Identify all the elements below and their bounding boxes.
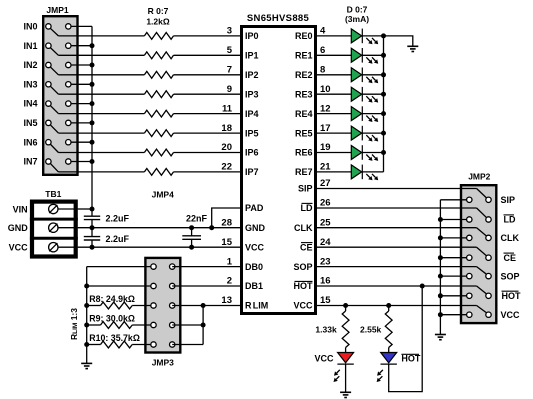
svg-text:2.2uF: 2.2uF [106, 213, 130, 223]
label IN7 [23, 157, 37, 167]
connector JMP2 left pins [467, 197, 472, 317]
svg-text:1.33k: 1.33k [315, 325, 337, 335]
pin number 22 [221, 162, 232, 173]
jumper diagonal CE [477, 247, 487, 256]
svg-text:23: 23 [320, 256, 331, 267]
LED D4 [351, 106, 378, 122]
svg-text:RE1: RE1 [295, 51, 313, 61]
terminal block TB1 body [30, 202, 78, 257]
pin number 7 [227, 65, 232, 76]
wire R9 to JMP3 [132, 324, 153, 326]
terminal TB1 GND screw [49, 223, 78, 232]
svg-text:TB1: TB1 [45, 189, 61, 199]
svg-text:22: 22 [221, 162, 232, 173]
LED VCC indicator (red) [334, 353, 354, 383]
wire red LED to ground [345, 364, 347, 392]
wire IN2 to resistor [58, 74, 144, 76]
connector JMP1 row 4 right pin and wire to bus [66, 101, 92, 106]
wire LED D6 cathode to bus [362, 152, 383, 154]
label JMP2 VCC [501, 310, 521, 320]
svg-text:R9: 30.0kΩ: R9: 30.0kΩ [89, 314, 135, 324]
wire RE3 to LED D3 [316, 93, 351, 95]
resistor R 0:7 element 7 [144, 169, 173, 176]
pin number 24 [320, 237, 331, 248]
wire JMP3 ground bus [86, 267, 88, 364]
resistor R 0:7 element 1 [144, 52, 173, 59]
label JMP2 CE [504, 253, 517, 263]
svg-text:DB1: DB1 [245, 281, 263, 291]
junction dots GND rail [90, 225, 215, 230]
svg-text:IP4: IP4 [245, 109, 259, 119]
resistor R 0:7 element 2 [144, 71, 173, 78]
pin number 3 [227, 26, 232, 37]
pin number 10 [320, 84, 331, 95]
svg-text:25: 25 [320, 217, 331, 228]
label RLIM 1:3 [69, 308, 79, 340]
svg-text:IP7: IP7 [245, 167, 259, 177]
op-amp U1 SN65HVS885 title [247, 13, 310, 24]
resistor R8 [101, 302, 133, 309]
svg-text:1: 1 [227, 256, 233, 267]
svg-text:IN3: IN3 [23, 79, 37, 89]
resistor R 0:7 element 0 [144, 33, 173, 40]
wire LED D0 cathode to bus [362, 35, 383, 37]
label VIN [13, 204, 28, 214]
label HOT indicator [401, 353, 421, 363]
pin number 11 [222, 103, 233, 114]
wire PAD to GND [212, 208, 241, 228]
jumper diagonal SIP [477, 189, 487, 199]
svg-text:RE2: RE2 [295, 70, 313, 80]
svg-text:PAD: PAD [245, 203, 264, 213]
svg-text:24: 24 [320, 237, 331, 248]
label C1 2.2uF [106, 213, 130, 223]
svg-text:SIP: SIP [501, 195, 516, 205]
connector JMP1 row 6 right pin and wire to bus [66, 140, 92, 145]
svg-text:SN65HVS885: SN65HVS885 [247, 13, 310, 24]
pin number 2 [227, 276, 232, 287]
wire IN1 to resistor [58, 54, 144, 56]
pin number 23 [320, 256, 331, 267]
svg-text:GND: GND [8, 223, 29, 233]
wire RE4 to LED D4 [316, 113, 351, 115]
pin number 20 [221, 142, 232, 153]
junction dots JMP1 bus [90, 43, 95, 164]
svg-text:IN1: IN1 [23, 41, 37, 51]
svg-text:IN0: IN0 [23, 22, 37, 32]
pin number 8 [320, 65, 325, 76]
capacitor C3 22nF [182, 228, 201, 248]
wire RE1 to LED D1 [316, 54, 351, 56]
wire RE5 to LED D5 [316, 132, 351, 134]
svg-text:RE3: RE3 [295, 89, 313, 99]
resistor R9 [101, 322, 133, 329]
svg-text:RE6: RE6 [295, 148, 313, 158]
svg-text:10: 10 [320, 84, 331, 95]
label C2 2.2uF [106, 234, 130, 244]
label R9 [89, 314, 135, 324]
svg-text:IN6: IN6 [23, 137, 37, 147]
connector JMP1 row 3 left pin [46, 82, 59, 95]
wire R11 to LED [345, 348, 347, 353]
connector JMP1 row 5 right pin and wire to bus [66, 120, 92, 125]
capacitor C1 2.2uF [84, 209, 100, 228]
junction dots RLIM net [201, 303, 206, 328]
label JMP2 HOT [502, 291, 522, 301]
svg-text:1.2kΩ: 1.2kΩ [146, 16, 170, 26]
connector JMP1 row 7 left pin [46, 159, 59, 172]
connector JMP2 body [461, 185, 496, 323]
wire resistor 2 to IP2 [174, 74, 242, 76]
wire LED bus to ground [384, 36, 413, 46]
pin number 13 [221, 295, 232, 306]
svg-text:28: 28 [221, 217, 232, 228]
resistor R10 [101, 341, 133, 348]
ground (red LED) [340, 392, 351, 397]
label VCC indicator [314, 353, 334, 363]
resistor R 0:7 element 4 [144, 110, 173, 117]
svg-text:(3mA): (3mA) [345, 14, 369, 24]
pin number 5 [227, 45, 233, 56]
wire IN7 to resistor [58, 171, 144, 173]
pin number 27 [320, 178, 331, 189]
resistor R 0:7 element 6 [144, 149, 173, 156]
connector JMP1 row 1 left pin [46, 43, 59, 55]
terminal TB1 VIN screw [49, 204, 78, 213]
ground (JMP2 bus) [435, 335, 446, 340]
pin number 16 [320, 276, 331, 287]
wire GND rail [78, 227, 241, 229]
svg-text:SOP: SOP [501, 271, 520, 281]
capacitor C2 2.2uF [84, 228, 100, 248]
connector JMP1 body [43, 16, 77, 175]
svg-text:D 0:7: D 0:7 [347, 5, 368, 15]
connector JMP2 right pins [486, 197, 491, 317]
wire JMP1 common bus to VIN [91, 26, 93, 209]
connector JMP1 row 3 right pin and wire to bus [66, 82, 92, 87]
connector JMP1 row 4 left pin [46, 101, 59, 114]
svg-text:LD: LD [504, 215, 516, 225]
wire resistor 4 to IP4 [174, 113, 242, 115]
svg-text:2: 2 [227, 276, 232, 287]
svg-text:CLK: CLK [501, 233, 520, 243]
pin number 17 [320, 123, 331, 134]
label VCC [9, 243, 29, 253]
jumper diagonal SOP [477, 267, 487, 275]
label GND [8, 223, 29, 233]
ground (LED bus) [407, 46, 418, 51]
wire resistor 1 to IP1 [174, 54, 242, 56]
svg-text:8: 8 [320, 65, 325, 76]
terminal block TB1 label [45, 189, 61, 199]
svg-text:SIP: SIP [298, 184, 313, 194]
svg-text:GND: GND [245, 223, 266, 233]
svg-text:11: 11 [222, 103, 233, 114]
label R8 [89, 294, 135, 304]
wire LED D3 cathode to bus [362, 93, 383, 95]
svg-text:IN5: IN5 [23, 118, 37, 128]
wires JMP2 left pins to ground bus [440, 200, 469, 315]
wire R8 to JMP3 [132, 305, 153, 307]
LED D3 [351, 87, 378, 103]
wire resistor 7 to IP7 [174, 171, 242, 173]
jumper diagonal LD [477, 208, 487, 218]
svg-text:IP0: IP0 [245, 31, 259, 41]
svg-text:CE: CE [504, 253, 517, 263]
junction HOT net [420, 284, 425, 289]
svg-text:RE0: RE0 [295, 31, 313, 41]
svg-text:VCC: VCC [293, 301, 313, 311]
svg-text:13: 13 [221, 295, 232, 306]
wire bus to R9 [87, 324, 101, 326]
connector JMP1 row 2 left pin [46, 62, 59, 75]
svg-text:IP2: IP2 [245, 70, 259, 80]
wire VCC to R11 [345, 306, 347, 312]
label IN1 [23, 41, 37, 51]
svg-text:IN4: IN4 [23, 99, 37, 109]
wire resistor 3 to IP3 [174, 93, 242, 95]
connector JMP1 row 6 left pin [46, 140, 59, 153]
connector JMP1 label [46, 5, 68, 15]
svg-text:CLK: CLK [294, 223, 313, 233]
label IN3 [23, 79, 37, 89]
pin number 9 [227, 84, 232, 95]
junction dots JMP3 ground bus [84, 284, 89, 348]
wire IN0 to resistor [58, 35, 144, 37]
svg-text:IN2: IN2 [23, 60, 37, 70]
wire resistor 6 to IP6 [174, 152, 242, 154]
svg-text:2.2uF: 2.2uF [106, 234, 130, 244]
IC right pin names RE0-RE7 [295, 31, 313, 177]
wire SOP to JMP2 [316, 266, 477, 268]
wire DB0 to JMP3 [87, 266, 154, 268]
svg-text:RE4: RE4 [295, 109, 313, 119]
svg-text:RLIM 1:3: RLIM 1:3 [69, 308, 79, 340]
pin number 12 [320, 103, 331, 114]
label JMP2 LD [504, 215, 516, 225]
IC left pin names IP0-IP7 [245, 31, 259, 177]
connector JMP1 row 5 left pin [46, 120, 59, 133]
wire IN6 to resistor [58, 152, 144, 154]
label 1.33k [315, 325, 337, 335]
svg-text:JMP2: JMP2 [468, 171, 490, 181]
label JMP2 SIP [501, 195, 516, 205]
svg-text:IP1: IP1 [245, 51, 259, 61]
wire bus to R10 [87, 344, 101, 346]
wire RE7 to LED D7 [316, 171, 351, 173]
LED D7 [351, 165, 378, 181]
connector JMP1 row 0 right pin and wire to bus [66, 24, 92, 29]
connector JMP3 label [152, 358, 174, 368]
svg-text:5: 5 [227, 45, 233, 56]
junction dots JMP2 bus [438, 217, 443, 317]
wire resistor 5 to IP5 [174, 132, 242, 134]
label D 0:7 [347, 5, 368, 15]
svg-text:LD: LD [301, 203, 313, 213]
svg-text:SOP: SOP [293, 262, 312, 272]
pin number 19 [320, 142, 331, 153]
resistor R 0:7 element 5 [144, 130, 173, 137]
svg-text:21: 21 [320, 162, 331, 173]
LED D6 [351, 145, 378, 161]
wire IN4 to resistor [58, 113, 144, 115]
svg-text:22nF: 22nF [186, 213, 208, 223]
wire VCC to JMP2 [316, 305, 477, 307]
pin number 15 (left) [221, 237, 232, 248]
junction dots VCC indicator [343, 303, 391, 308]
label JMP2 SOP [501, 271, 520, 281]
wire LED D7 cathode to bus [362, 171, 383, 173]
svg-text:27: 27 [320, 178, 331, 189]
svg-text:15: 15 [221, 237, 232, 248]
jumper diagonal HOT [477, 286, 487, 294]
svg-text:19: 19 [320, 142, 331, 153]
resistor R12 2.55k [385, 311, 392, 348]
wire resistor 0 to IP0 [174, 35, 242, 37]
pin number 28 [221, 217, 232, 228]
LED D1 [351, 48, 378, 64]
junction dots LED bus [381, 33, 386, 155]
svg-text:JMP4: JMP4 [152, 190, 174, 200]
LED D2 [351, 68, 378, 84]
svg-text:18: 18 [221, 123, 232, 134]
connector JMP3 left pins [151, 264, 156, 347]
wire RLIM net [172, 306, 241, 345]
label R10 [89, 333, 140, 343]
wire SIP to JMP2 [316, 188, 477, 190]
wire blue LED to HOT [389, 286, 423, 392]
wire LED D5 cathode to bus [362, 132, 383, 134]
label IN6 [23, 137, 37, 147]
svg-text:R 0:7: R 0:7 [148, 6, 169, 16]
label R 0:7 [148, 6, 169, 16]
LED D0 [351, 29, 378, 45]
svg-text:RE5: RE5 [295, 128, 313, 138]
svg-text:VCC: VCC [245, 242, 265, 252]
connector JMP3 right pins [170, 264, 175, 347]
pin number 1 [227, 256, 233, 267]
svg-text:RE7: RE7 [295, 167, 313, 177]
svg-text:12: 12 [320, 103, 331, 114]
pin number 21 [320, 162, 331, 173]
svg-text:JMP1: JMP1 [46, 5, 68, 15]
svg-text:26: 26 [320, 198, 331, 209]
label IN0 [23, 22, 37, 32]
label JMP4 [152, 190, 174, 200]
svg-text:DB0: DB0 [245, 262, 263, 272]
wire LED cathode bus [383, 36, 385, 172]
pin number 26 [320, 198, 331, 209]
svg-text:20: 20 [221, 142, 232, 153]
wire JMP3 to DB1 pin 2 [172, 285, 241, 287]
pin number 15 [320, 295, 331, 306]
wire JMP2 ground bus [439, 200, 441, 335]
wire LED D4 cathode to bus [362, 113, 383, 115]
label (3mA) [345, 14, 369, 24]
svg-text:15: 15 [320, 295, 331, 306]
op-amp U1 SN65HVS885 body [242, 27, 316, 314]
svg-text:R8: 24.9kΩ: R8: 24.9kΩ [89, 294, 135, 304]
connector JMP1 row 2 right pin and wire to bus [66, 62, 92, 67]
label 2.55k [360, 325, 382, 335]
connector JMP3 body [145, 258, 180, 353]
IC lower right pin names [293, 184, 313, 311]
wire VIN [78, 208, 92, 210]
label 1.2kOhm [146, 16, 170, 26]
wire DB1 to JMP3 [87, 285, 154, 287]
wire IN5 to resistor [58, 132, 144, 134]
svg-text:VIN: VIN [13, 204, 28, 214]
wire LED D1 cathode to bus [362, 54, 383, 56]
connector JMP1 row 1 right pin and wire to bus [66, 43, 92, 48]
svg-text:RLIM: RLIM [245, 301, 268, 311]
wire RE6 to LED D6 [316, 152, 351, 154]
pin number 6 [320, 45, 325, 56]
svg-text:VCC: VCC [9, 243, 29, 253]
svg-text:CE: CE [300, 242, 313, 252]
svg-text:4: 4 [320, 26, 326, 37]
svg-text:3: 3 [227, 26, 232, 37]
wire VCC to R12 [388, 306, 390, 312]
wire LD to JMP2 [316, 207, 477, 209]
wire HOT to JMP2 [316, 285, 477, 287]
svg-text:2.55k: 2.55k [360, 325, 382, 335]
svg-text:HOT: HOT [502, 291, 522, 301]
IC lower left pin names [245, 203, 268, 311]
wire bus to R8 [87, 305, 101, 307]
wire JMP3 to DB0 pin 1 [172, 266, 241, 268]
connector JMP1 row 0 left pin [46, 24, 59, 36]
svg-text:16: 16 [320, 276, 331, 287]
LED HOT indicator (blue) [377, 353, 397, 383]
svg-text:17: 17 [320, 123, 331, 134]
wire R10 to JMP3 [132, 344, 153, 346]
jumper diagonal VCC [477, 306, 487, 313]
label JMP2 CLK [501, 233, 520, 243]
label IN5 [23, 118, 37, 128]
label IN2 [23, 60, 37, 70]
svg-text:VCC: VCC [501, 310, 521, 320]
svg-text:VCC: VCC [314, 353, 334, 363]
wire CE to JMP2 [316, 246, 477, 248]
wire R12 to LED [388, 348, 390, 353]
wire RE2 to LED D2 [316, 74, 351, 76]
wire VCC rail [78, 246, 241, 248]
pin number 18 [221, 123, 232, 134]
wire IN3 to resistor [58, 93, 144, 95]
junction dots VCC rail [90, 245, 195, 250]
resistor R 0:7 element 3 [144, 91, 173, 98]
svg-text:JMP3: JMP3 [152, 358, 174, 368]
resistor R11 1.33k [342, 311, 349, 348]
pin number 4 [320, 26, 326, 37]
connector JMP2 label [468, 171, 490, 181]
svg-text:6: 6 [320, 45, 325, 56]
svg-text:9: 9 [227, 84, 232, 95]
LED D5 [351, 126, 378, 142]
svg-text:HOT: HOT [294, 281, 314, 291]
wire CLK to JMP2 [316, 227, 477, 229]
wire RE0 to LED D0 [316, 35, 351, 37]
svg-text:7: 7 [227, 65, 232, 76]
junction VIN bus [90, 207, 95, 212]
svg-text:IP5: IP5 [245, 128, 259, 138]
svg-text:IN7: IN7 [23, 157, 37, 167]
svg-text:IP6: IP6 [245, 148, 259, 158]
jumper diagonal CLK [477, 228, 487, 236]
pin number 25 [320, 217, 331, 228]
wire LED D2 cathode to bus [362, 74, 383, 76]
